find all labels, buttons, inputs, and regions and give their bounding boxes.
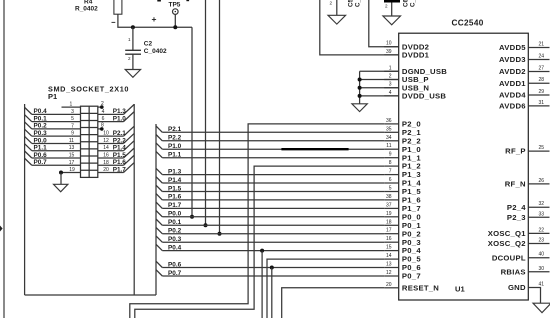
chip U1 pin 4 (DVDD_USB) (384, 90, 446, 101)
svg-text:2: 2 (101, 101, 104, 107)
connector P1 body (2x10 grid) (81, 106, 98, 177)
junction dot DVDD_USB (358, 94, 362, 98)
cropped mark at top edge (right of TP5) (186, 0, 189, 1)
pin 5 of P1, net P0.1 (wire + bus entry) (25, 115, 81, 123)
chip U1 pin 36 (P2_0) (384, 118, 421, 129)
svg-text:41: 41 (539, 282, 545, 288)
pin 1 stub of P1 (62, 102, 81, 108)
op-amp U1 CC2540 body (399, 33, 529, 300)
svg-text:17: 17 (386, 228, 392, 234)
chip U1 pin 22 (XOSC_Q1) (488, 227, 550, 238)
svg-text:5: 5 (71, 116, 74, 122)
svg-text:11: 11 (69, 138, 74, 144)
svg-text:26: 26 (539, 178, 545, 184)
svg-text:XOSC_Q2: XOSC_Q2 (488, 239, 526, 248)
chip U1 pin 21 (AVDD5) (499, 42, 549, 53)
chip U1 pin 12 (P0_7) (384, 270, 421, 281)
pin 20 of P1, net P1.7 (wire + bus entry) (98, 163, 134, 174)
chip refdes U1 (455, 285, 465, 294)
svg-text:C_0402: C_0402 (410, 0, 417, 7)
svg-text:P0.4: P0.4 (168, 244, 182, 251)
svg-text:P0.6: P0.6 (34, 152, 48, 159)
svg-text:C2: C2 (144, 41, 153, 48)
svg-text:16: 16 (386, 236, 392, 242)
chip U1 pin 28 (AVDD1) (499, 77, 549, 88)
net P1.5 (bus entry + wire to chip) (156, 185, 384, 192)
svg-text:33: 33 (539, 211, 545, 217)
wire DVDD1 net (vertical from top, to pin 39) (320, 0, 399, 55)
ground (U1 GND pin) (533, 303, 550, 313)
svg-text:39: 39 (386, 49, 392, 55)
bus (left vertical) (24, 104, 26, 295)
svg-text:7: 7 (71, 123, 74, 129)
svg-text:28: 28 (539, 77, 545, 83)
svg-text:P1.3: P1.3 (168, 168, 182, 175)
svg-text:P0_7: P0_7 (402, 272, 421, 281)
wire DVDD2 net (vertical from top, to pin 10) (369, 0, 399, 47)
svg-text:AVDD4: AVDD4 (499, 91, 526, 100)
pin 3 of P1, net P0.4 (wire + bus entry) (25, 107, 81, 115)
chip U1 pin 31 (AVDD6) (499, 100, 549, 111)
svg-text:5: 5 (389, 186, 392, 192)
svg-text:U1: U1 (455, 285, 465, 294)
wire P1_2 (chip pin 8 elbow to bottom) (135, 166, 384, 318)
wire USB_P (360, 79, 399, 81)
svg-text:+: + (152, 14, 157, 24)
svg-text:AVDD1: AVDD1 (499, 79, 526, 88)
testpoint TP5 label (169, 1, 181, 8)
chip U1 pin 27 (AVDD2) (499, 66, 549, 77)
pin 9 of P1, net P0.3 (wire + bus entry) (25, 129, 81, 137)
chip U1 pin 37 (P1_7) (384, 202, 421, 213)
chip U1 pin 15 (P0_4) (384, 245, 421, 256)
svg-text:C_0402: C_0402 (144, 48, 167, 55)
chip U1 pin 25 (RF_P) (505, 145, 549, 156)
svg-text:34: 34 (386, 135, 392, 141)
net P2.1 (bus entry + wire to chip) (156, 126, 384, 133)
chip U1 pin 32 (P2_4) (507, 201, 550, 212)
svg-text:13: 13 (69, 145, 75, 151)
junction dot USB_P (358, 78, 362, 82)
chip U1 pin 2 (USB_P) (384, 74, 429, 85)
svg-text:P1.6: P1.6 (113, 159, 127, 166)
chip U1 pin 11 (P1_0) (384, 143, 421, 154)
svg-text:14: 14 (103, 145, 109, 151)
net P0.0 (bus entry + wire to chip) (156, 211, 384, 218)
capacitor C5 ground wire (336, 0, 338, 15)
net P1.6 (bus entry + wire to chip) (156, 194, 384, 201)
pin 7 of P1, net P0.2 (wire + bus entry) (25, 122, 81, 130)
svg-text:29: 29 (539, 89, 545, 95)
svg-text:16: 16 (103, 152, 109, 158)
svg-text:P1.5: P1.5 (168, 185, 182, 192)
svg-text:P1.4: P1.4 (113, 145, 127, 152)
wire P2_0 (chip pin 36 elbow to bottom) (130, 124, 384, 318)
svg-text:1: 1 (70, 102, 73, 108)
pin 4 of P1, net P1.3 (wire + bus entry) (98, 104, 134, 115)
pin 14 of P1, net P1.4 (wire + bus entry) (98, 141, 134, 152)
svg-text:P1.7: P1.7 (168, 202, 182, 209)
chip U1 pin 10 (DVDD2) (384, 41, 429, 52)
capacitor C5 label (rotated, cropped) (348, 0, 362, 7)
wire P0.4 drop to bottom (261, 251, 263, 318)
chip U1 pin 23 (XOSC_Q2) (488, 238, 550, 249)
svg-text:RF_P: RF_P (505, 147, 526, 156)
svg-text:DCOUPL: DCOUPL (492, 253, 526, 262)
svg-text:P0.3: P0.3 (34, 130, 48, 137)
svg-text:20: 20 (386, 282, 392, 288)
svg-text:25: 25 (539, 145, 545, 151)
chip U1 pin 8 (P1_2) (384, 160, 421, 171)
svg-text:12: 12 (103, 138, 109, 144)
junction dot TP5/node (173, 25, 177, 29)
chip U1 pin 38 (P1_6) (384, 194, 421, 205)
junction dot on P0.2 (218, 232, 222, 236)
svg-text:P0.2: P0.2 (34, 123, 48, 130)
svg-text:38: 38 (386, 194, 392, 200)
connector P1 title (48, 85, 129, 94)
cropped mark at top edge (left of TP5) (157, 0, 161, 2)
chip U1 pin 18 (P0_1) (384, 219, 421, 230)
svg-text:AVDD5: AVDD5 (499, 43, 526, 52)
svg-text:14: 14 (386, 253, 392, 259)
junction dot on P0.4 (260, 249, 264, 253)
chip U1 pin 24 (AVDD3) (499, 54, 549, 65)
chip U1 pin 5 (P1_5) (384, 186, 421, 197)
svg-text:18: 18 (103, 160, 109, 166)
pin 17 of P1, net P0.7 (wire + bus entry) (25, 158, 81, 166)
chip title CC2540 (452, 19, 484, 28)
net P1.0 (bus entry + wire to chip) (156, 143, 384, 150)
svg-text:RF_N: RF_N (505, 180, 526, 189)
wire DGND_USB to ground bracket (360, 70, 399, 72)
svg-text:17: 17 (69, 160, 75, 166)
junction dot C2 tap (131, 25, 135, 29)
chip U1 pin 30 (RBIAS) (501, 266, 550, 277)
wire node to C2 (132, 27, 134, 50)
svg-text:2: 2 (385, 4, 388, 9)
chip U1 pin 41 (GND) (508, 282, 544, 304)
svg-text:12: 12 (386, 270, 392, 276)
wire node down to P0.0 (vertical) (191, 27, 193, 217)
svg-text:P2.2: P2.2 (168, 135, 182, 142)
svg-text:P0.0: P0.0 (34, 137, 48, 144)
svg-text:P0.1: P0.1 (168, 219, 182, 226)
net P0.2 (bus entry + wire to chip) (156, 227, 384, 234)
svg-text:GND: GND (508, 283, 526, 292)
svg-text:P2_4: P2_4 (507, 203, 526, 212)
svg-text:CC2540: CC2540 (452, 19, 484, 28)
svg-text:1: 1 (389, 65, 392, 71)
svg-text:2: 2 (330, 1, 333, 6)
capacitor C6 ground wire (391, 3, 393, 17)
wire P0.6 drop to bottom (271, 268, 273, 318)
svg-text:2: 2 (389, 74, 392, 80)
connector P1 refdes (48, 92, 57, 101)
svg-text:P1.3: P1.3 (113, 108, 127, 115)
capacitor C2 (125, 50, 141, 54)
ground (P1 pin 19) (54, 184, 68, 192)
chip U1 pin 19 (P0_0) (384, 211, 421, 222)
svg-text:P1.1: P1.1 (34, 145, 48, 152)
junction dot on P0.6 (270, 266, 274, 270)
resistor R4 labels (75, 0, 98, 13)
chip U1 pin 3 (USB_N) (384, 82, 429, 93)
bus (bottom horizontal) (25, 294, 156, 296)
chip U1 pin 16 (P0_3) (384, 236, 421, 247)
svg-text:P0.7: P0.7 (34, 159, 48, 166)
svg-text:XOSC_Q1: XOSC_Q1 (488, 229, 527, 238)
bus (middle vertical) (155, 124, 157, 295)
wire DVDD_USB (360, 95, 399, 97)
pin 16 of P1, net P1.5 (wire + bus entry) (98, 148, 134, 159)
wire TP5 to node (174, 14, 176, 27)
resistor R4 (114, 0, 122, 14)
chip U1 pin 9 (P1_1) (384, 152, 421, 163)
svg-text:19: 19 (69, 167, 75, 173)
capacitor C2 labels (144, 41, 167, 56)
svg-text:P0.3: P0.3 (168, 236, 182, 243)
junction dot on P0.0 (190, 215, 194, 219)
pin label 1 (R4 bottom pin) (112, 21, 116, 23)
net P0.1 (bus entry + wire to chip) (156, 219, 384, 226)
svg-text:32: 32 (539, 201, 545, 207)
svg-text:21: 21 (539, 42, 545, 48)
svg-text:15: 15 (386, 245, 392, 251)
svg-text:19: 19 (386, 211, 392, 217)
net P0.6 (bus entry + wire to chip) (156, 261, 384, 268)
svg-text:P1.6: P1.6 (168, 194, 182, 201)
wire C2 to ground (132, 54, 134, 69)
pin 18 of P1, net P1.6 (wire + bus entry) (98, 155, 134, 166)
svg-text:P2.1: P2.1 (113, 130, 127, 137)
svg-text:P1.0: P1.0 (113, 115, 127, 122)
svg-text:DVDD1: DVDD1 (402, 51, 430, 60)
svg-text:P2_3: P2_3 (507, 213, 526, 222)
pin 13 of P1, net P1.1 (wire + bus entry) (25, 144, 81, 152)
pin 2 label C6 (385, 4, 388, 9)
wire USB_N (360, 87, 399, 89)
svg-text:9: 9 (71, 131, 74, 137)
ground (C2) (125, 70, 140, 78)
svg-text:RBIAS: RBIAS (501, 267, 526, 276)
svg-text:P0.6: P0.6 (168, 261, 182, 268)
svg-text:15: 15 (69, 152, 75, 158)
svg-text:10: 10 (103, 131, 109, 137)
testpoint TP5 (173, 9, 179, 15)
chip U1 pin 39 (DVDD1) (384, 49, 429, 60)
capacitor C6 label (rotated, cropped) (403, 0, 417, 7)
chip U1 pin 33 (P2_3) (507, 211, 550, 222)
svg-text:C6: C6 (403, 0, 410, 7)
pin 2 label C5 (330, 1, 333, 6)
bus (socket right vertical) (133, 104, 135, 295)
svg-text:P0.0: P0.0 (168, 211, 182, 218)
ground (USB bracket) (352, 104, 367, 112)
wire USB ground bracket (vertical) (359, 71, 361, 104)
wire from top to P0.2 (vertical) (219, 0, 221, 234)
svg-text:AVDD2: AVDD2 (499, 67, 526, 76)
sheet border (left edge of schematic frame) (3, 0, 5, 318)
chip U1 pin 40 (DCOUPL) (492, 252, 550, 263)
svg-text:4: 4 (389, 90, 392, 96)
svg-text:31: 31 (539, 100, 545, 106)
svg-text:8: 8 (101, 123, 104, 129)
svg-text:37: 37 (386, 202, 392, 208)
svg-text:P1.1: P1.1 (168, 152, 182, 159)
svg-text:13: 13 (386, 262, 392, 268)
svg-text:2: 2 (128, 56, 131, 61)
svg-text:3: 3 (71, 109, 74, 115)
pin 12 of P1, net P2.2 (wire + bus entry) (98, 133, 134, 144)
chip U1 pin 35 (P2_1) (384, 126, 421, 137)
pin 6 of P1, net P1.0 (wire + bus entry) (98, 112, 134, 123)
chip U1 pin 13 (P0_6) (384, 262, 421, 273)
pin 11 of P1, net P0.0 (wire + bus entry) (25, 136, 81, 144)
pin 19 of P1 (to ground) (59, 167, 81, 184)
net P2.2 (bus entry + wire to chip) (156, 135, 384, 142)
svg-text:SMD_SOCKET_2X10: SMD_SOCKET_2X10 (48, 85, 129, 94)
pin 2 of P1 (no-connect dot) (98, 101, 104, 109)
svg-text:RESET_N: RESET_N (402, 283, 439, 292)
svg-text:4: 4 (102, 109, 105, 115)
pin 1 label C2 (128, 37, 131, 42)
wire P0_5 (chip pin 14 corner to bottom) (267, 259, 384, 318)
svg-text:P1: P1 (48, 92, 57, 101)
svg-text:C_0402: C_0402 (355, 0, 362, 7)
net P1.1 (bus entry + wire to chip) (156, 151, 384, 158)
svg-text:8: 8 (389, 160, 392, 166)
svg-text:22: 22 (539, 227, 545, 233)
svg-text:P0.7: P0.7 (168, 270, 182, 277)
svg-text:P2.1: P2.1 (168, 126, 182, 133)
svg-text:P0.2: P0.2 (168, 228, 182, 235)
svg-text:24: 24 (539, 54, 545, 60)
chip U1 pin 20 (RESET_N) (384, 282, 439, 293)
svg-text:6: 6 (102, 116, 105, 122)
pin 15 of P1, net P0.6 (wire + bus entry) (25, 151, 81, 159)
chip U1 pin 14 (P0_5) (384, 253, 421, 264)
net P0.3 (bus entry + wire to chip) (156, 236, 384, 243)
chip U1 pin 29 (AVDD4) (499, 89, 549, 100)
chip U1 pin 17 (P0_2) (384, 228, 421, 239)
capacitor C6 plate (cropped) (384, 0, 400, 3)
junction dot USB_N (358, 86, 362, 90)
wire R4 to node (P0.0 net) (118, 14, 192, 27)
svg-text:7: 7 (389, 169, 392, 175)
chip U1 pin 7 (P1_3) (384, 169, 421, 180)
svg-text:1: 1 (128, 37, 131, 42)
svg-text:DVDD_USB: DVDD_USB (402, 92, 446, 101)
svg-text:20: 20 (103, 167, 109, 173)
svg-text:3: 3 (389, 82, 392, 88)
edge mark (cropped arrow at left border) (0, 226, 3, 232)
svg-text:P1.0: P1.0 (168, 143, 182, 150)
svg-text:R_0402: R_0402 (75, 6, 98, 13)
svg-text:27: 27 (539, 66, 545, 72)
chip U1 pin 34 (P2_2) (384, 135, 421, 146)
pin 2 label C2 (128, 56, 131, 61)
svg-text:40: 40 (539, 252, 545, 258)
chip U1 pin 1 (DGND_USB) (384, 65, 447, 76)
net P1.3 (bus entry + wire to chip) (156, 168, 384, 175)
chip U1 pin 26 (RF_N) (505, 178, 550, 189)
svg-text:11: 11 (386, 143, 391, 149)
svg-text:P0.1: P0.1 (34, 115, 48, 122)
svg-text:23: 23 (539, 238, 545, 244)
pin 8 of P1 (no-connect dot) (98, 123, 104, 131)
svg-text:AVDD3: AVDD3 (499, 55, 526, 64)
svg-text:18: 18 (386, 219, 392, 225)
svg-text:P1.4: P1.4 (168, 177, 182, 184)
svg-text:35: 35 (386, 126, 392, 132)
svg-text:30: 30 (539, 266, 545, 272)
svg-text:TP5: TP5 (169, 1, 181, 8)
plus polarity mark (152, 14, 157, 24)
svg-text:AVDD6: AVDD6 (499, 102, 526, 111)
svg-text:9: 9 (389, 152, 392, 158)
wire from top to P0.1 (vertical) (205, 0, 207, 225)
thick highlighted segment on P1_0 net (281, 148, 348, 150)
ground (C5) (328, 15, 346, 24)
svg-text:P1.5: P1.5 (113, 152, 127, 159)
svg-text:10: 10 (386, 41, 392, 47)
svg-text:P1.7: P1.7 (113, 166, 127, 173)
net P0.7 (bus entry + wire to chip) (156, 270, 384, 277)
net P1.7 (bus entry + wire to chip) (156, 202, 384, 209)
svg-text:P0.4: P0.4 (34, 108, 48, 115)
wire RESET_N (chip pin 20 corner to bottom) (282, 288, 385, 318)
svg-text:36: 36 (386, 118, 392, 124)
ground (C6) (383, 16, 401, 25)
svg-text:6: 6 (389, 177, 392, 183)
svg-text:C5: C5 (348, 0, 355, 7)
chip U1 pin 6 (P1_4) (384, 177, 421, 188)
junction dot on P0.1 (204, 223, 208, 227)
svg-text:P2.2: P2.2 (113, 137, 127, 144)
net P0.4 (bus entry + wire to chip) (156, 244, 384, 251)
net P1.4 (bus entry + wire to chip) (156, 177, 384, 184)
pin 10 of P1, net P2.1 (wire + bus entry) (98, 126, 134, 137)
